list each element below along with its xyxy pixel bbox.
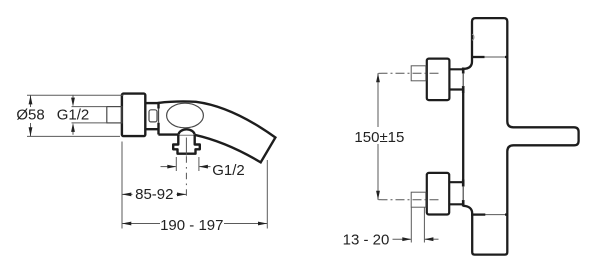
svg-text:G1/2: G1/2: [57, 107, 90, 124]
svg-text:13 - 20: 13 - 20: [343, 232, 390, 249]
svg-text:150±15: 150±15: [354, 129, 404, 146]
svg-text:Ø58: Ø58: [16, 107, 44, 124]
svg-text:190 - 197: 190 - 197: [160, 217, 223, 234]
svg-text:G1/2: G1/2: [212, 162, 245, 179]
svg-text:85-92: 85-92: [135, 186, 173, 203]
